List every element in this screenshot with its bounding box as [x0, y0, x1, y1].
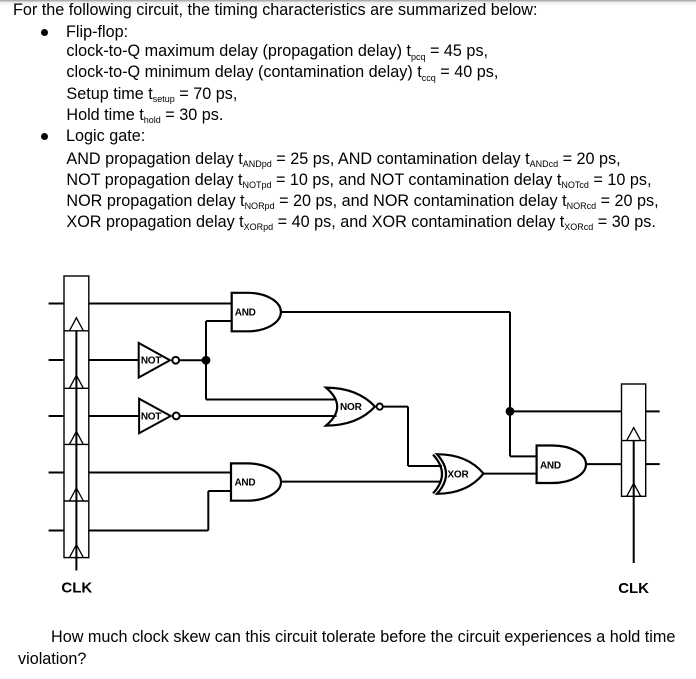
wire D input stub row5: [49, 530, 64, 532]
CLK label right: [618, 580, 649, 597]
problem statement text: [13, 2, 538, 18]
inverter NOT2: [139, 399, 180, 434]
wire Q1 to AND1 top input: [89, 303, 232, 305]
and gate AND3: [231, 463, 281, 500]
svg-text:NOT: NOT: [141, 356, 161, 367]
wire AND1 output horizontal: [281, 311, 510, 313]
wire NOR output horizontal: [383, 406, 408, 408]
wire D input stub row2: [49, 359, 64, 361]
wire Q3 to NOT2: [89, 415, 139, 417]
clock triangle right FF2: [627, 483, 641, 496]
xor gate XOR: [433, 454, 484, 494]
wire node B to right register D1: [510, 410, 622, 412]
register FF bank right (2 flip-flops): [622, 384, 646, 496]
and gate AND2: [537, 446, 586, 484]
register FF bank left (5 flip-flops): [64, 276, 89, 558]
wire node A to NOR top input: [206, 399, 337, 401]
node junction dot A: [202, 356, 211, 365]
wire to XOR top input: [408, 465, 442, 467]
node junction dot B: [506, 407, 515, 416]
wire AND2 output to right register D2: [586, 463, 622, 465]
CLK label left: [61, 580, 92, 597]
question text: [51, 629, 675, 645]
clock triangle FF4: [69, 488, 83, 501]
wire node A vertical: [205, 321, 207, 400]
wire NOT1 output to node: [179, 359, 206, 361]
wire AND3 output to XOR bottom input: [281, 481, 440, 483]
nor gate NOR: [326, 388, 383, 426]
wire Q4 to AND3 top input: [89, 472, 231, 474]
clock line right register: [633, 441, 635, 563]
svg-text:XOR: XOR: [447, 470, 469, 481]
wire D input stub row4: [49, 472, 64, 474]
wire NOT2 output to NOR bottom input: [180, 415, 337, 417]
svg-text:CLK: CLK: [618, 580, 649, 597]
clock triangle FF3: [69, 431, 83, 444]
wire node A to AND1 bottom input: [206, 320, 232, 322]
wire Q5 vertical up: [207, 491, 209, 531]
wire NOR output vertical: [407, 407, 409, 466]
wire D input stub row1: [49, 303, 64, 305]
wire Q5 horizontal: [89, 530, 209, 532]
wire Q output stub right row1: [646, 410, 660, 412]
and gate AND1: [232, 293, 281, 332]
wire XOR output to AND2 bottom input: [484, 473, 537, 475]
clock triangle FF2: [69, 375, 83, 388]
wire AND1 output vertical: [509, 312, 511, 456]
clock triangle right FF1: [627, 428, 641, 441]
wire D input stub row3: [49, 415, 64, 417]
wire to AND2 top input: [510, 455, 537, 457]
svg-text:NOR: NOR: [340, 402, 363, 413]
clock line left register: [75, 331, 77, 571]
clock triangle FF5: [69, 545, 83, 558]
svg-text:CLK: CLK: [61, 580, 92, 597]
wire Q output stub right row2: [646, 463, 660, 465]
svg-text:AND: AND: [235, 307, 256, 318]
wire Q2 to NOT1: [89, 359, 139, 361]
clock triangle FF1: [69, 318, 83, 331]
svg-text:AND: AND: [540, 460, 561, 471]
inverter NOT1: [139, 343, 179, 378]
svg-text:AND: AND: [235, 478, 256, 489]
wire to AND3 bottom input: [208, 490, 231, 492]
svg-text:NOT: NOT: [141, 411, 161, 422]
